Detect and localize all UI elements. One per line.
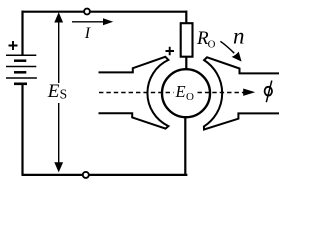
svg-text:O: O [186, 91, 194, 103]
wire top rail [22, 11, 188, 13]
svg-text:n: n [233, 23, 245, 48]
field pole right [204, 57, 279, 129]
battery E_S plate short 2 [14, 71, 26, 74]
current arrow I [72, 21, 104, 23]
resistor R_O [181, 23, 193, 57]
plus sign at armature E_O terminal [166, 47, 175, 55]
svg-text:S: S [60, 87, 68, 102]
wire left vertical (top part to battery) [21, 11, 23, 55]
label phi (drawn: slashed circle) [265, 87, 272, 96]
battery E_S plate short 3 (negative terminal) [14, 83, 27, 86]
battery E_S plate long 3 [6, 77, 37, 79]
flux dashed line (left segment) [99, 92, 174, 94]
battery E_S plate long 2 [6, 66, 36, 68]
rotation arrow n (speed) [220, 41, 234, 53]
wire left vertical (battery to bottom rail) [21, 84, 23, 175]
wire armature bottom to rail [184, 117, 186, 175]
svg-text:I: I [84, 25, 91, 42]
node A (top terminal, open circle) [84, 9, 90, 15]
field pole left [99, 57, 169, 129]
wire bottom rail [22, 174, 188, 176]
svg-text:E: E [47, 81, 60, 102]
wire resistor to armature [185, 57, 187, 69]
battery E_S polarity plus sign [9, 41, 18, 50]
svg-text:E: E [175, 82, 186, 101]
node B (bottom terminal, open circle) [83, 172, 89, 178]
svg-text:O: O [208, 38, 216, 50]
battery E_S plate long 1 [6, 54, 36, 56]
wire right vertical (top rail to resistor) [185, 11, 187, 24]
flux phi arrowhead [243, 89, 255, 96]
flux dashed line (right segment) [198, 92, 245, 94]
generator armature E_O (circle) [162, 69, 210, 117]
voltage arrow E_S (dimension arrow) [58, 20, 60, 83]
battery E_S plate short 1 [14, 59, 26, 62]
